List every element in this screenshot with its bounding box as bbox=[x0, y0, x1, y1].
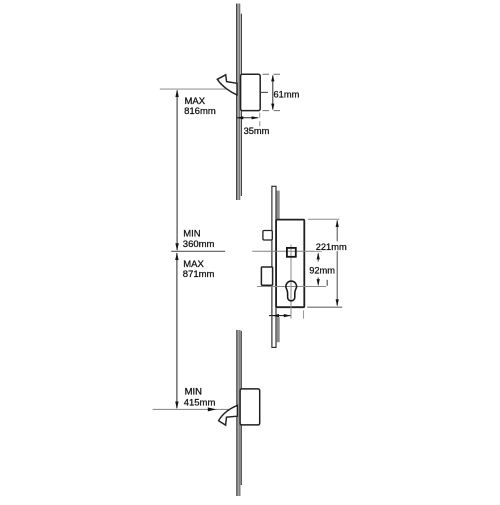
cylinder horizontal centerline bbox=[257, 286, 326, 288]
case edge extension tick bbox=[303, 310, 305, 318]
latch bolt bbox=[263, 231, 272, 241]
top faceplate strip bbox=[236, 4, 240, 201]
top keep box bbox=[241, 74, 261, 110]
dead bolt bbox=[261, 267, 272, 285]
221mm label bbox=[315, 241, 347, 251]
bottom keep box bbox=[240, 389, 260, 425]
svg-text:92mm: 92mm bbox=[309, 265, 335, 275]
221mm extension line top bbox=[308, 218, 340, 220]
svg-text:415mm: 415mm bbox=[184, 398, 216, 409]
svg-text:MIN: MIN bbox=[183, 228, 201, 239]
spindle datum line left segment bbox=[171, 250, 225, 252]
221mm extension line bottom bbox=[307, 306, 342, 308]
top drive rod line bbox=[240, 14, 242, 196]
35mm extension line bbox=[259, 113, 261, 127]
spindle vertical centerline bbox=[290, 245, 292, 319]
92mm dimension arrows bbox=[317, 252, 320, 286]
middle backplate lower bbox=[277, 317, 280, 342]
61mm extension line bottom bbox=[263, 110, 283, 112]
top hook bolt bbox=[217, 75, 237, 95]
vertical dimension line MAX871/MIN415 bbox=[175, 252, 178, 409]
spindle datum line right segment bbox=[252, 250, 322, 252]
bottom drive rod line bbox=[240, 331, 242, 485]
bottom hook bolt bbox=[219, 405, 238, 425]
bottom faceplate strip bbox=[236, 330, 240, 496]
svg-text:360mm: 360mm bbox=[183, 239, 215, 250]
svg-text:871mm: 871mm bbox=[183, 269, 215, 280]
vertical dimension line MAX816/MIN360 bbox=[175, 89, 178, 251]
61mm dimension line with arrows bbox=[271, 75, 274, 111]
svg-text:221mm: 221mm bbox=[316, 242, 347, 252]
61mm extension line top bbox=[263, 73, 283, 75]
bottom reference line with arrow bbox=[153, 408, 237, 410]
backset dimension below case bbox=[269, 314, 291, 317]
middle backplate upper bbox=[277, 191, 280, 220]
middle faceplate strip bbox=[272, 186, 276, 347]
follower square bbox=[287, 248, 296, 257]
svg-text:61mm: 61mm bbox=[274, 90, 300, 100]
35mm dimension line bbox=[236, 116, 258, 119]
top reference line (MAX816 datum) bbox=[160, 88, 237, 90]
svg-text:816mm: 816mm bbox=[184, 106, 216, 117]
221mm dimension line with arrows bbox=[336, 220, 339, 307]
centerline end tick bbox=[326, 280, 328, 286]
61mm leader tick bbox=[261, 91, 268, 93]
euro cylinder cutout bbox=[286, 281, 297, 301]
svg-text:MIN: MIN bbox=[185, 387, 203, 398]
gearbox case bbox=[276, 220, 304, 308]
svg-text:35mm: 35mm bbox=[244, 126, 270, 136]
